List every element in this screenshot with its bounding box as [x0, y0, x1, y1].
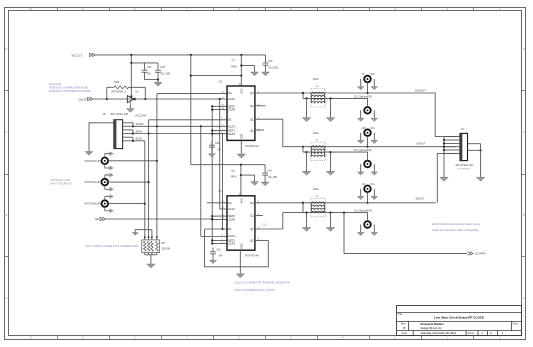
svg-text:10u 12B: 10u 12B — [268, 67, 278, 70]
svg-text:SDIN: SDIN — [136, 129, 142, 133]
svg-text:Title: Title — [398, 313, 403, 316]
svg-text:PO74G74A: PO74G74A — [245, 254, 259, 258]
svg-text:OPTIONAL(JP): OPTIONAL(JP) — [84, 181, 101, 184]
svg-text:Q2: Q2 — [250, 104, 254, 108]
svg-text:CLR2: CLR2 — [228, 108, 235, 112]
svg-text:SCKOUT: SCKOUT — [415, 89, 426, 93]
svg-text:NFW: NFW — [231, 176, 237, 179]
svg-text:Saturday, December 08, 2012: Saturday, December 08, 2012 — [421, 331, 457, 335]
svg-text:UFL: UFL — [371, 127, 376, 130]
svg-text:Q2: Q2 — [250, 201, 254, 205]
svg-text:C42: C42 — [215, 142, 220, 145]
svg-text:Size: Size — [401, 323, 406, 326]
svg-text:D: D — [523, 48, 525, 51]
svg-text:UFL: UFL — [371, 183, 376, 186]
svg-text:C43: C43 — [216, 248, 221, 251]
svg-text:VCC: VCC — [240, 198, 243, 203]
svg-text:CLR1: CLR1 — [228, 132, 235, 136]
svg-text:OPTIONAL 3.3%: OPTIONAL 3.3% — [50, 178, 71, 182]
svg-text:Q2: Q2 — [250, 91, 254, 95]
svg-text:CLK1: CLK1 — [261, 223, 268, 226]
svg-text:CLR2: CLR2 — [228, 218, 235, 222]
svg-text:CLR1: CLR1 — [228, 242, 235, 246]
svg-text:VCC: VCC — [240, 88, 243, 93]
svg-text:C: C — [523, 131, 525, 134]
svg-text:CLK2: CLK2 — [228, 97, 235, 101]
svg-text:Low Jitter Clock Board RF CLOC: Low Jitter Clock Board RF CLOCK — [434, 316, 485, 320]
svg-text:(LG GROBY): (LG GROBY) — [457, 168, 470, 170]
svg-text:ZGM: ZGM — [313, 132, 318, 135]
svg-text:Q1: Q1 — [250, 117, 254, 121]
svg-text:C41: C41 — [267, 170, 272, 173]
svg-text:D1: D1 — [228, 117, 232, 121]
svg-text:2012-09-29 Another optional Se: 2012-09-29 Another optional Setup Group — [432, 222, 481, 226]
svg-text:Document Number: Document Number — [421, 322, 444, 326]
svg-text:OPTIONAL 0: OPTIONAL 0 — [111, 91, 126, 94]
svg-text:OE: OE — [95, 217, 99, 221]
svg-text:10u 12B: 10u 12B — [160, 72, 170, 75]
svg-text:SDOUT: SDOUT — [417, 142, 426, 146]
svg-text:PO74G74A: PO74G74A — [245, 144, 259, 148]
svg-text:of: of — [490, 332, 492, 335]
svg-text:Sheet: Sheet — [468, 332, 475, 335]
svg-text:U7: U7 — [219, 189, 223, 193]
svg-text:10K: 10K — [147, 72, 152, 75]
svg-text:C40: C40 — [268, 60, 273, 63]
svg-text:22KOM: 22KOM — [162, 247, 170, 250]
svg-text:VCC3.3: VCC3.3 — [72, 53, 83, 57]
svg-text:CLK25: CLK25 — [78, 97, 87, 101]
svg-text:SET1: SET1 — [228, 239, 235, 243]
svg-text:C25: C25 — [160, 66, 165, 69]
svg-text:2012-12-03 REMOTE ALL IN PIN: 2012-12-03 REMOTE ALL IN PIN — [235, 288, 275, 292]
svg-text:INPUT SOURCES: INPUT SOURCES — [50, 182, 72, 186]
svg-text:Design By Ian Jin: Design By Ian Jin — [421, 326, 442, 330]
svg-text:C: C — [5, 131, 7, 134]
svg-text:B: B — [404, 326, 406, 330]
svg-text:CLK1: CLK1 — [228, 234, 235, 238]
svg-text:NFW: NFW — [231, 66, 237, 69]
svg-text:UFL: UFL — [371, 73, 376, 76]
svg-text:SET2: SET2 — [228, 214, 235, 218]
svg-text:SDOUT: SDOUT — [416, 196, 425, 200]
svg-text:OPTIONAL(JP): OPTIONAL(JP) — [84, 160, 101, 163]
svg-text:SET1: SET1 — [228, 129, 235, 133]
svg-text:D1: D1 — [228, 227, 232, 231]
svg-text:Q1: Q1 — [250, 227, 254, 231]
svg-text:PULL LOW IN CASE NOT CONNECTED: PULL LOW IN CASE NOT CONNECTED — [85, 244, 138, 248]
svg-text:2012-12-03 REMOTE TERMINAL SEN: 2012-12-03 REMOTE TERMINAL SENSE PIN — [235, 281, 290, 285]
svg-text:SET2: SET2 — [228, 104, 235, 108]
svg-text:J10: J10 — [362, 127, 367, 130]
svg-text:10u 12B: 10u 12B — [268, 176, 278, 179]
svg-text:NOTE BLK2: OPTIONED HIGH MODE: NOTE BLK2: OPTIONED HIGH MODE — [49, 90, 91, 93]
svg-text:CLKPFO: CLKPFO — [475, 252, 487, 256]
svg-text:CLK1: CLK1 — [228, 124, 235, 128]
svg-text:NOTE BLK1: NORMAL HIGH MODE: NOTE BLK1: NORMAL HIGH MODE — [49, 87, 89, 90]
svg-text:D2: D2 — [228, 201, 232, 205]
svg-text:Q1: Q1 — [250, 239, 254, 243]
svg-text:Q2: Q2 — [250, 214, 254, 218]
svg-text:R26: R26 — [115, 81, 120, 84]
svg-text:ZGM: ZGM — [313, 78, 318, 81]
svg-text:Rev1: Rev1 — [513, 323, 519, 326]
svg-text:Added for dual dock master con: Added for dual dock master configuration — [432, 228, 480, 232]
svg-text:Q1: Q1 — [250, 129, 254, 133]
svg-text:SCKIN: SCKIN — [136, 122, 144, 126]
svg-text:C21: C21 — [147, 66, 152, 69]
svg-text:2012-02-09: 2012-02-09 — [49, 83, 62, 86]
svg-text:D2: D2 — [228, 91, 232, 95]
svg-text:GND: GND — [240, 243, 243, 249]
svg-text:ZGM: ZGM — [313, 188, 318, 191]
svg-text:GND: GND — [240, 133, 243, 139]
svg-text:Date:: Date: — [402, 332, 408, 335]
svg-text:D: D — [5, 48, 7, 51]
svg-text:OPTIONAL(JP): OPTIONAL(JP) — [84, 203, 101, 206]
svg-text:400-1739-1-ND: 400-1739-1-ND — [455, 163, 473, 167]
svg-text:SCIN: SCIN — [136, 137, 142, 141]
svg-text:400-1739-1-ND: 400-1739-1-ND — [110, 112, 128, 116]
svg-text:CLK2: CLK2 — [228, 207, 235, 211]
svg-text:LVC1G04: LVC1G04 — [135, 114, 147, 118]
svg-text:U5: U5 — [219, 79, 223, 83]
